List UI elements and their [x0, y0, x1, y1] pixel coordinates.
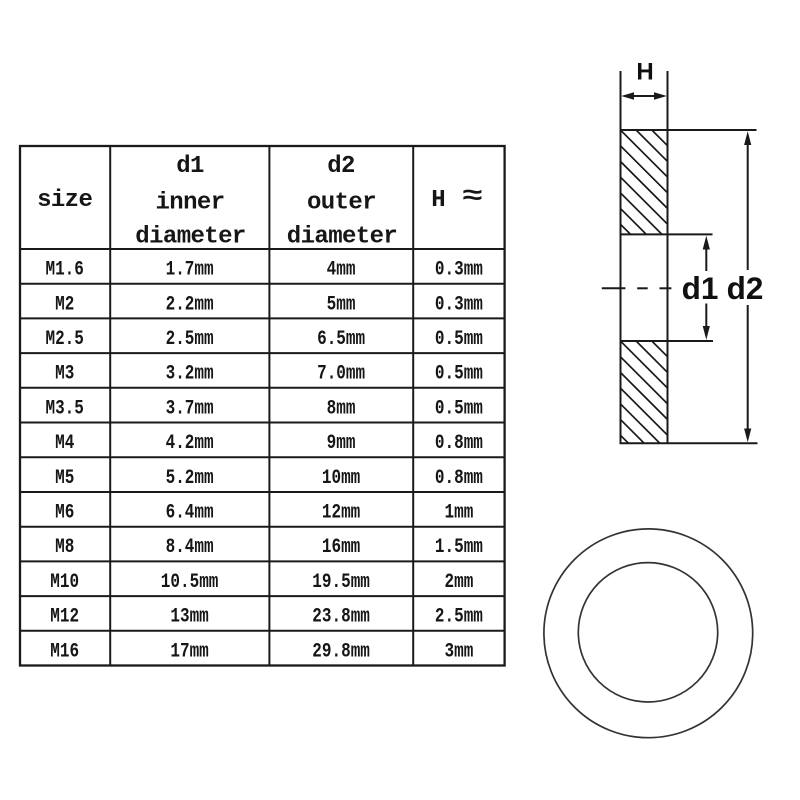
row M3.5: [45, 398, 483, 420]
hole top edge / d1 extension line: [620, 233, 713, 235]
svg-text:2.2mm: 2.2mm: [166, 294, 214, 316]
svg-text:M2.5: M2.5: [45, 329, 83, 351]
svg-text:M1.6: M1.6: [45, 259, 83, 281]
header: d1 inner diameter: [135, 153, 245, 251]
svg-text:d2: d2: [327, 153, 355, 180]
svg-text:9mm: 9mm: [327, 433, 356, 455]
row M6: [55, 502, 473, 524]
washer cross-section right edge: [667, 71, 669, 443]
svg-text:M6: M6: [55, 502, 74, 524]
header: d2 outer diameter: [287, 153, 397, 251]
svg-text:5.2mm: 5.2mm: [166, 467, 214, 489]
svg-text:1.5mm: 1.5mm: [435, 537, 483, 559]
svg-text:8.4mm: 8.4mm: [166, 537, 214, 559]
svg-text:12mm: 12mm: [322, 502, 361, 524]
dashed centerline: [602, 287, 672, 289]
svg-text:0.8mm: 0.8mm: [435, 467, 483, 489]
svg-text:5mm: 5mm: [327, 294, 356, 316]
svg-text:4mm: 4mm: [327, 259, 356, 281]
svg-text:d1: d1: [682, 270, 719, 306]
svg-text:M3: M3: [55, 363, 74, 385]
svg-text:2.5mm: 2.5mm: [166, 329, 214, 351]
svg-text:H: H: [636, 59, 653, 86]
table outer border: [20, 146, 505, 666]
svg-text:1.7mm: 1.7mm: [166, 259, 214, 281]
svg-text:H: H: [431, 187, 445, 214]
svg-text:0.3mm: 0.3mm: [435, 294, 483, 316]
svg-text:29.8mm: 29.8mm: [312, 641, 370, 663]
washer top edge / d2 extension line: [620, 129, 757, 131]
row M8: [55, 537, 483, 559]
svg-text:size: size: [37, 187, 92, 214]
svg-text:10.5mm: 10.5mm: [161, 571, 219, 593]
d1 dimension line with arrows: [703, 236, 710, 340]
svg-text:1mm: 1mm: [444, 502, 473, 524]
row M2: [55, 294, 483, 316]
row M16: [50, 641, 473, 663]
svg-text:M16: M16: [50, 641, 79, 663]
svg-text:0.3mm: 0.3mm: [435, 259, 483, 281]
svg-text:M12: M12: [50, 606, 79, 628]
svg-text:4.2mm: 4.2mm: [166, 433, 214, 455]
row M12: [50, 606, 483, 628]
washer front view outer circle: [544, 529, 753, 738]
svg-text:2.5mm: 2.5mm: [435, 606, 483, 628]
table column lines: [110, 146, 413, 666]
row M10: [50, 571, 473, 593]
svg-text:10mm: 10mm: [322, 467, 361, 489]
svg-text:diameter: diameter: [287, 224, 397, 251]
svg-text:≈: ≈: [462, 182, 483, 211]
svg-text:M4: M4: [55, 433, 74, 455]
svg-text:17mm: 17mm: [170, 641, 209, 663]
header: H approx: [431, 182, 483, 214]
svg-text:7.0mm: 7.0mm: [317, 363, 365, 385]
table row lines: [20, 249, 505, 631]
washer cross-section left edge: [620, 71, 622, 443]
svg-text:16mm: 16mm: [322, 537, 361, 559]
svg-text:0.8mm: 0.8mm: [435, 433, 483, 455]
row M4: [55, 433, 483, 455]
washer bottom edge / d2 extension line: [620, 442, 758, 444]
row M3: [55, 363, 483, 385]
svg-text:3mm: 3mm: [444, 641, 473, 663]
svg-text:6.5mm: 6.5mm: [317, 329, 365, 351]
svg-text:3.7mm: 3.7mm: [166, 398, 214, 420]
svg-text:M10: M10: [50, 571, 79, 593]
svg-text:19.5mm: 19.5mm: [312, 571, 370, 593]
svg-text:M8: M8: [55, 537, 74, 559]
svg-text:8mm: 8mm: [327, 398, 356, 420]
d2 dimension line with arrows: [744, 131, 751, 442]
row M5: [55, 467, 483, 489]
svg-text:M2: M2: [55, 294, 74, 316]
svg-text:M5: M5: [55, 467, 74, 489]
svg-text:2mm: 2mm: [444, 571, 473, 593]
svg-text:0.5mm: 0.5mm: [435, 329, 483, 351]
svg-text:outer: outer: [307, 190, 376, 217]
svg-text:23.8mm: 23.8mm: [312, 606, 370, 628]
svg-text:diameter: diameter: [135, 224, 245, 251]
H dimension arrow: [621, 92, 667, 99]
svg-text:0.5mm: 0.5mm: [435, 398, 483, 420]
svg-text:d1: d1: [176, 153, 204, 180]
row M1.6: [45, 259, 483, 281]
svg-text:M3.5: M3.5: [45, 398, 83, 420]
row M2.5: [45, 329, 483, 351]
svg-text:inner: inner: [155, 190, 224, 217]
svg-text:d2: d2: [727, 270, 764, 306]
svg-text:3.2mm: 3.2mm: [166, 363, 214, 385]
hole bottom edge / d1 extension line: [620, 340, 714, 342]
svg-text:0.5mm: 0.5mm: [435, 363, 483, 385]
svg-text:6.4mm: 6.4mm: [166, 502, 214, 524]
washer front view inner circle: [578, 563, 717, 702]
svg-text:13mm: 13mm: [170, 606, 209, 628]
